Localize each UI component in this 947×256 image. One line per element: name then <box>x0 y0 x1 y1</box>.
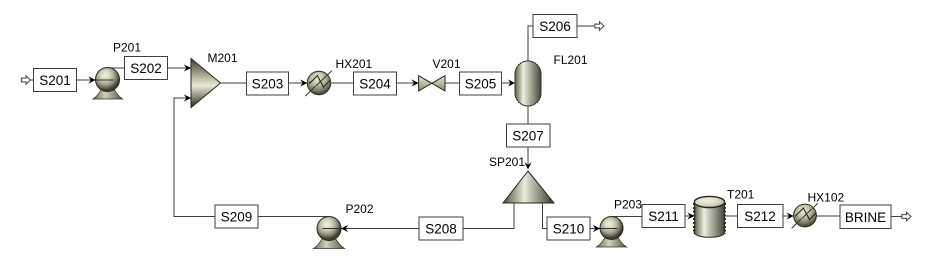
svg-text:P203: P203 <box>614 198 642 212</box>
stream box S209 <box>215 205 258 228</box>
splitter SP201 <box>503 171 554 203</box>
heat exchanger HX201 <box>305 71 332 96</box>
wire recycle vertical S209 to M201 <box>174 98 215 217</box>
svg-text:S208: S208 <box>425 222 457 237</box>
svg-text:S206: S206 <box>539 19 571 34</box>
svg-text:P201: P201 <box>113 41 141 55</box>
wire SP201 left leg to S208 <box>463 203 514 229</box>
wire HX102 to BRINE <box>816 215 840 217</box>
wire FL201 bottom to S207 <box>527 106 529 124</box>
wire S205 to FL201 <box>502 82 516 84</box>
wire feed to S201 <box>31 79 34 81</box>
stream box BRINE <box>840 205 891 229</box>
arrowhead into M201 inlet 1 <box>184 64 191 71</box>
wire SP201 right leg to S210 <box>543 203 548 229</box>
svg-text:S204: S204 <box>359 77 391 92</box>
svg-text:T201: T201 <box>727 188 755 202</box>
arrowhead into FL201 <box>508 79 515 86</box>
svg-text:HX201: HX201 <box>336 57 373 71</box>
wire S212 to HX102 <box>783 215 794 217</box>
svg-text:BRINE: BRINE <box>845 210 886 225</box>
arrowhead into V201 <box>411 79 418 86</box>
arrowhead into HX201 <box>300 79 307 86</box>
pump P201 <box>93 68 123 100</box>
heat exchanger HX102 <box>792 203 818 228</box>
stream box S211 <box>642 205 685 228</box>
stream box S206 <box>533 15 577 38</box>
valve V201 <box>419 76 445 91</box>
mixer M201 <box>191 59 221 108</box>
wire S202 to M201 <box>168 67 192 69</box>
svg-text:S201: S201 <box>39 73 71 88</box>
wire S211 to T201 <box>685 215 695 217</box>
svg-text:S211: S211 <box>648 209 679 224</box>
svg-text:V201: V201 <box>433 57 461 71</box>
vapor product open arrow <box>595 22 604 30</box>
wire P203 outlet to S211 <box>612 216 643 218</box>
svg-text:M201: M201 <box>208 51 238 65</box>
stream box S208 <box>419 217 463 240</box>
tank T201 <box>694 196 724 237</box>
arrowhead into M201 inlet 2 <box>184 94 191 101</box>
wire HX201 to S204 <box>331 82 354 84</box>
wire S204 to V201 <box>397 82 419 84</box>
svg-text:S205: S205 <box>465 77 497 92</box>
wire V201 to S205 <box>445 82 460 84</box>
svg-text:S202: S202 <box>130 61 162 76</box>
wire M201 to S203 <box>221 82 247 84</box>
wire S203 to HX201 <box>289 82 308 84</box>
feed open arrow <box>21 76 30 84</box>
wire S201 to P201 <box>77 79 96 81</box>
wire S208 to P202 <box>341 228 419 230</box>
wire FL201 top to S206 <box>528 26 533 61</box>
svg-text:S209: S209 <box>221 210 253 225</box>
stream box S210 <box>547 217 590 240</box>
stream box S207 <box>507 124 551 147</box>
stream box S212 <box>738 205 784 228</box>
arrowhead into HX102 <box>787 212 794 219</box>
stream box S204 <box>354 72 397 95</box>
svg-text:S210: S210 <box>553 222 585 237</box>
svg-text:HX102: HX102 <box>808 191 845 205</box>
wire S207 to SP201 <box>527 147 529 165</box>
wire P202 outlet to S209 <box>258 216 329 218</box>
arrowhead into P202 <box>341 225 348 232</box>
stream box S202 <box>125 57 168 80</box>
pump P203 <box>597 217 627 248</box>
arrowhead into P203 <box>593 225 600 232</box>
stream box S201 <box>34 69 77 92</box>
wire P201 outlet to S202 <box>108 67 126 69</box>
wire S206 to vapor outlet <box>577 25 594 27</box>
svg-text:FL201: FL201 <box>554 53 588 67</box>
pump P202 <box>314 217 345 249</box>
wire S210 to P203 <box>590 228 600 230</box>
svg-text:S207: S207 <box>512 129 544 144</box>
svg-text:S203: S203 <box>252 77 284 92</box>
arrowhead into SP201 <box>524 162 531 169</box>
arrowhead into P201 <box>88 76 95 83</box>
brine product open arrow <box>902 212 911 220</box>
wire T201 to S212 <box>725 215 738 217</box>
wire BRINE to outlet <box>891 216 902 218</box>
svg-text:S212: S212 <box>744 209 776 224</box>
stream box S203 <box>247 72 289 95</box>
svg-text:SP201: SP201 <box>489 155 525 169</box>
arrowhead into T201 <box>687 212 694 219</box>
stream box S205 <box>460 72 502 95</box>
svg-text:P202: P202 <box>346 202 374 216</box>
flash vessel FL201 <box>515 61 541 106</box>
